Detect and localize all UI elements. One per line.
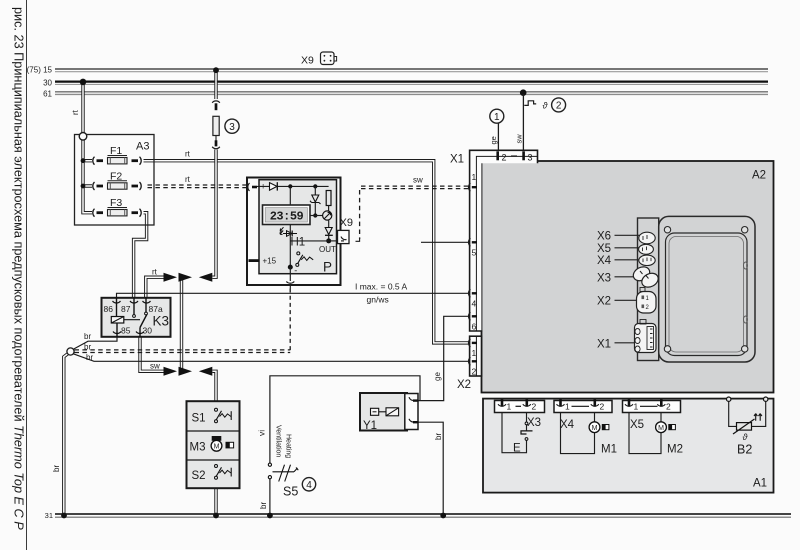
svg-text:ge: ge [433,372,442,381]
svg-text:X1: X1 [597,339,611,351]
motor M2 (combustion fan) [629,413,683,456]
motor M1 (dosing pump) [561,413,617,456]
svg-text:X9: X9 [301,55,314,67]
svg-text:+15: +15 [263,257,277,266]
temperature sensor tap and wire sw to X1 pin3 with callout 2 [515,94,566,153]
X2 pin 2 [469,357,471,365]
svg-text:X3: X3 [597,273,611,285]
inline fuse with callout 3 [212,101,239,149]
wire rt dashed from F2 to timer [148,150,249,188]
svg-text:5: 5 [472,248,477,258]
svg-text:S1: S1 [192,413,206,425]
svg-text:1: 1 [565,402,570,412]
svg-text:OUT: OUT [319,245,336,254]
svg-text:2: 2 [532,402,537,412]
svg-text:A1: A1 [753,478,767,490]
svg-text:X3: X3 [527,417,541,429]
wire vi from Y1 node to S5 [257,376,421,515]
svg-text:M2: M2 [667,444,683,456]
svg-text:br: br [86,353,93,362]
button switch [297,252,300,255]
X2 pin 1 [469,339,471,347]
wire F1 output rt to X2 pin1 (double) [144,161,471,343]
svg-text:E: E [513,443,521,455]
temperature switch E [502,413,533,455]
control unit A2 [482,161,774,393]
temperature sensor B2 [727,397,768,457]
X1 pin 1 [468,183,470,191]
connector X9 (top symbol) [301,52,337,67]
connector X9 at timer output [338,217,353,244]
svg-text:rt: rt [71,109,80,115]
svg-text:X5: X5 [630,419,644,431]
wire br splice to ground bus (double) [64,353,69,514]
svg-text:br: br [84,342,91,351]
switch S5 with callout 4 [268,425,315,499]
svg-text:X4: X4 [560,419,575,431]
svg-text:2: 2 [502,153,507,163]
svg-text:M: M [658,425,664,432]
svg-text:23:59: 23:59 [270,210,304,224]
svg-text:1: 1 [507,402,512,412]
wire A3 internal bus (double) [83,140,92,213]
wire F3 output to K3-87 (double) [134,213,147,298]
connector arrows row y277 [164,273,213,282]
clock display [263,205,311,225]
svg-text:B2: B2 [737,443,752,457]
splice node (circle) [67,348,74,355]
svg-text:6: 6 [472,322,477,332]
relay K3 [102,298,171,337]
br labels at splice [84,332,93,362]
svg-text:A2: A2 [752,170,766,182]
heater connector X5 [597,243,653,255]
IR diode symbols [280,227,284,234]
svg-text:30: 30 [43,79,52,88]
wire br dashed splice to timer (double dashed) [75,350,291,353]
svg-text:K3: K3 [153,314,170,329]
svg-text:X5: X5 [597,243,611,255]
svg-text:S2: S2 [192,470,206,482]
svg-text:87a: 87a [149,304,163,314]
wire X1 pin6 to Y1 pin1 [419,316,471,400]
junction dot on bus30 [80,79,87,86]
svg-text:M1: M1 [601,444,617,456]
wire sw dashed from X9 to X1 pin1 [356,176,471,242]
fuse F3 [93,197,141,217]
svg-text:3: 3 [528,153,533,163]
wire gn/ws from K3-86 to X1 pin4 [117,282,471,305]
heater connector X4 [597,255,655,267]
svg-text:br: br [259,502,268,509]
thermal switch S1 [215,408,232,423]
svg-text:br: br [84,332,91,341]
heater unit drawing inside A2 [638,216,756,362]
svg-text:2: 2 [666,402,671,412]
heater assembly A1 [483,399,774,493]
wire br splice to X2 pin2 [73,354,471,362]
svg-text:2: 2 [600,402,605,412]
wire interconnect x181 (double) [180,277,183,371]
connector X2 housing [457,336,482,391]
connector X1 housing [450,150,538,332]
wire sw from K3-30 (double) [140,337,164,372]
timer unit P outer box [247,178,341,286]
svg-text:S5: S5 [283,485,298,499]
svg-text:M: M [214,444,220,451]
heater connector X2 [597,288,656,314]
junction dot on bus61 [520,89,527,96]
heater connector X6 [597,231,655,244]
bus 30 [43,79,768,88]
svg-text:vi: vi [257,430,267,436]
svg-text:M: M [592,425,598,432]
svg-text:(75) 15: (75) 15 [27,66,53,75]
svg-text:sw: sw [413,176,423,185]
svg-text:4: 4 [306,480,312,491]
wire br splice to K3-85 [73,337,117,349]
svg-text:31: 31 [45,511,53,520]
fuse F1 [93,145,141,165]
svg-text:M3: M3 [190,442,206,454]
svg-text:rt: rt [185,175,191,184]
svg-text:2: 2 [472,367,477,377]
svg-text:br: br [52,465,61,472]
bus 15 [27,66,768,75]
svg-text:Y1: Y1 [363,420,377,432]
bus 61 [43,90,768,99]
svg-text:87: 87 [121,304,131,314]
svg-text:A3: A3 [136,141,149,153]
wire to blower box S1/M3/S2 and ground (double) [212,371,216,514]
wire ge to X1 pin2 with callout 1 [489,109,504,152]
X1 pin 5 [468,238,470,246]
svg-text:Heating: Heating [285,434,292,458]
svg-text:2: 2 [556,101,562,112]
svg-text:X2: X2 [597,296,611,308]
svg-text:rt: rt [185,150,191,159]
svg-text:P: P [323,260,332,275]
blower box S1 M3 S2 [187,401,240,488]
fuse box A3 [75,133,155,226]
connector strip X4 [554,400,612,432]
thermal switch S2 [215,465,232,480]
X1 pin 4 [468,289,470,297]
svg-text:85: 85 [121,326,131,336]
svg-text:X2: X2 [457,379,471,391]
X1 pin 6 [469,312,471,320]
wire from bus15 through fuse 3 (double) [212,71,216,277]
svg-text:3: 3 [229,122,235,133]
heater connector X3 [597,264,661,290]
svg-text:rt: rt [152,268,158,277]
wire rt from bus30 to A3 (double) [81,82,84,133]
svg-text:X1: X1 [450,154,464,166]
svg-text:1: 1 [472,172,477,182]
svg-text:4: 4 [472,299,477,309]
svg-text:X4: X4 [597,255,612,267]
connector strip X5 [623,400,681,432]
svg-text:1: 1 [472,348,477,358]
svg-text:I max. = 0.5 A: I max. = 0.5 A [355,282,408,292]
svg-text:30: 30 [143,326,153,336]
svg-text:61: 61 [43,90,52,99]
svg-text:gn/ws: gn/ws [367,295,389,305]
svg-text:1: 1 [634,402,639,412]
svg-text:ge: ge [489,136,498,144]
ground bus 31 [45,511,791,520]
ground junction dots [61,513,446,519]
connector arrows row y371 [150,268,212,376]
caption rule line [26,0,28,550]
svg-text:Ventilation: Ventilation [275,425,282,457]
junction dot on bus15 [213,67,219,73]
svg-text:H1: H1 [291,237,306,249]
OUT node wiring [289,225,291,268]
svg-text:-: - [294,266,297,276]
wire Y1 pin2 to ground bus [419,422,444,514]
wire to X1 pin5 [421,241,471,243]
wire dashed timer minus down [289,289,291,352]
svg-text:X6: X6 [597,231,611,243]
solenoid valve Y1 [360,393,419,432]
svg-text:sw: sw [150,362,160,371]
timer internals H1 [248,182,341,289]
heater connector X1 [597,320,656,353]
svg-text:86: 86 [104,304,114,314]
wire rt to K3-87a (double) [146,277,164,298]
fuse F2 [93,170,141,190]
svg-text:1: 1 [494,112,500,123]
motor M3 [211,436,234,451]
+15 stub [249,259,260,262]
svg-text:br: br [434,433,443,440]
svg-text:рис. 23 Принципиальная электро: рис. 23 Принципиальная электросхема пред… [12,7,26,530]
svg-text:sw: sw [515,134,524,144]
zener and resistor branch [312,195,319,202]
svg-text:X9: X9 [340,217,353,229]
connector strip X3 [495,400,545,430]
